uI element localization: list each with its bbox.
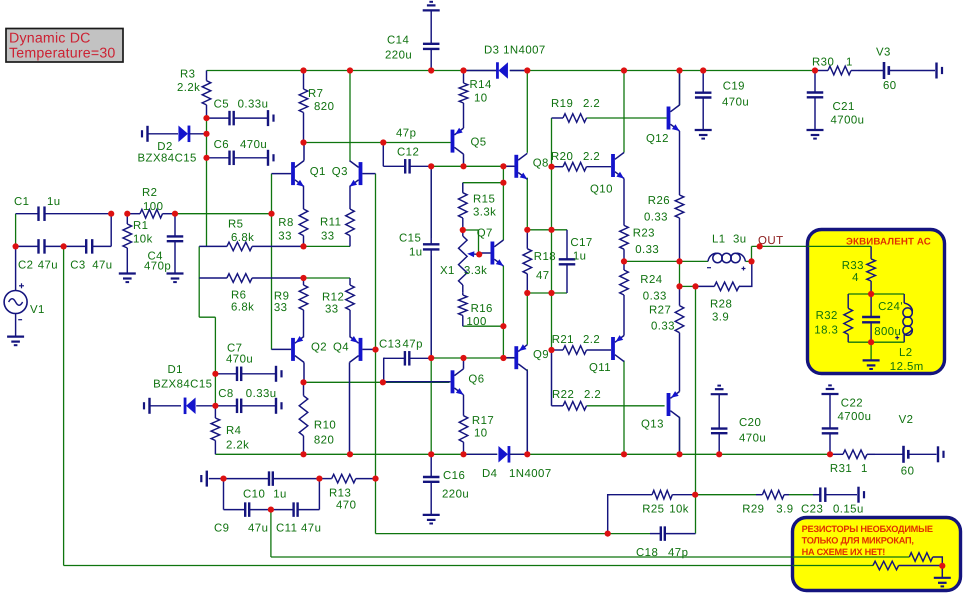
svg-text:X1: X1 (440, 265, 455, 277)
svg-text:0.33: 0.33 (643, 291, 667, 303)
wire (551, 118, 553, 350)
svg-text:R19: R19 (551, 98, 573, 110)
capacitor C14 (385, 10, 439, 70)
open end (268, 110, 274, 126)
svg-text:C13: C13 (379, 339, 401, 351)
wire (793, 556, 910, 558)
svg-text:D2: D2 (157, 141, 172, 153)
svg-text:C23: C23 (801, 504, 823, 516)
svg-text:D1: D1 (168, 364, 183, 376)
svg-text:R17: R17 (472, 415, 494, 427)
wire (695, 286, 697, 494)
transistor Q10 (590, 153, 624, 196)
transistor Q9 (503, 344, 549, 454)
svg-text:НА СХЕМЕ ИХ НЕТ!: НА СХЕМЕ ИХ НЕТ! (802, 547, 886, 557)
svg-text:L2: L2 (899, 347, 913, 359)
inductor L1 (707, 234, 747, 271)
wire (430, 256, 432, 359)
svg-text:47: 47 (536, 270, 550, 282)
resistor R11 (320, 187, 354, 247)
svg-text:R22: R22 (552, 389, 574, 401)
svg-text:C3: C3 (70, 260, 85, 272)
svg-text:R31: R31 (830, 463, 852, 475)
capacitor C9 (214, 479, 271, 535)
open end (201, 471, 207, 487)
svg-text:BZX84C15: BZX84C15 (138, 153, 197, 165)
potentiometer X1 (440, 230, 487, 292)
wire (848, 341, 904, 343)
ground (423, 515, 440, 524)
svg-text:470p: 470p (144, 261, 171, 273)
svg-text:R8: R8 (278, 217, 293, 229)
capacitor C6 (207, 139, 269, 165)
resistor R31 (830, 450, 875, 475)
transistor Q1 (272, 143, 326, 187)
ground (167, 274, 184, 283)
resistor R9 (274, 278, 308, 336)
svg-text:R29: R29 (742, 504, 764, 516)
capacitor C12 (383, 128, 429, 174)
svg-text:6.8k: 6.8k (231, 302, 254, 314)
wire (526, 71, 528, 153)
svg-text:Q4: Q4 (333, 342, 349, 354)
svg-text:2.2: 2.2 (583, 98, 600, 110)
wire (207, 70, 498, 72)
resistor R27 (649, 286, 684, 391)
svg-text:47u: 47u (248, 523, 268, 535)
wire (510, 453, 830, 455)
resistor R2 (127, 187, 175, 218)
capacitor C19 (695, 71, 749, 131)
wire (304, 142, 453, 144)
svg-text:2.2k: 2.2k (177, 82, 200, 94)
wire (304, 277, 351, 279)
svg-text:820: 820 (314, 435, 334, 447)
ground (822, 385, 839, 394)
svg-text:R24: R24 (640, 274, 662, 286)
wire (304, 381, 450, 383)
svg-text:R18: R18 (534, 251, 556, 263)
svg-text:R14: R14 (470, 79, 492, 91)
svg-text:V1: V1 (30, 304, 45, 316)
wire (463, 183, 504, 193)
svg-text:R32: R32 (816, 310, 838, 322)
transistor Q11 (589, 335, 624, 374)
wire (175, 213, 272, 215)
svg-text:10: 10 (474, 93, 488, 105)
wire (808, 245, 872, 247)
svg-text:R5: R5 (228, 219, 243, 231)
svg-text:C9: C9 (214, 523, 229, 535)
svg-text:33: 33 (274, 302, 288, 314)
open end (144, 398, 150, 414)
resistor R18 (523, 230, 556, 293)
ground (807, 130, 824, 139)
resistor R14 (459, 71, 492, 129)
ground (934, 578, 951, 587)
capacitor C1 (14, 196, 111, 221)
diode D4 1N4007 (464, 446, 552, 480)
svg-text:R15: R15 (473, 194, 495, 206)
svg-text:C11: C11 (276, 523, 297, 535)
capacitor C10 (209, 471, 320, 500)
svg-text:C22: C22 (841, 398, 863, 410)
svg-text:R12: R12 (322, 292, 344, 304)
wire (680, 285, 696, 287)
open end (142, 126, 148, 142)
svg-text:100: 100 (143, 201, 163, 213)
svg-text:V3: V3 (876, 47, 891, 59)
svg-text:D3 1N4007: D3 1N4007 (484, 45, 546, 57)
svg-text:1: 1 (861, 463, 868, 475)
svg-text:C21: C21 (833, 101, 855, 113)
svg-text:R21: R21 (552, 334, 574, 346)
resistor R30 (812, 57, 858, 75)
wire (870, 342, 872, 360)
wire (502, 166, 504, 240)
transistor Q3 (332, 161, 376, 187)
capacitor C4 (144, 214, 183, 274)
wire (431, 357, 516, 359)
inductor L2 (890, 294, 924, 373)
svg-text:0.33u: 0.33u (246, 388, 277, 400)
svg-text:18.3: 18.3 (814, 325, 838, 337)
svg-text:R11: R11 (320, 217, 341, 229)
svg-text:Temperature=30: Temperature=30 (9, 46, 116, 62)
wire (679, 71, 681, 106)
capacitor C11 (271, 479, 321, 535)
svg-text:C20: C20 (739, 417, 761, 429)
resistor R13 (319, 474, 375, 511)
svg-text:R25: R25 (642, 504, 664, 516)
svg-text:C14: C14 (387, 35, 409, 47)
resistor R21 (552, 334, 612, 354)
capacitor C21 (807, 71, 865, 131)
wire (214, 374, 216, 406)
wire (752, 245, 872, 247)
svg-text:470u: 470u (722, 97, 749, 109)
svg-text:2.2: 2.2 (584, 389, 601, 401)
battery V3 (858, 47, 935, 93)
resistor R34 (909, 553, 942, 566)
diode D3 1N4007 (464, 45, 546, 79)
wire (526, 293, 528, 345)
svg-text:4700u: 4700u (838, 411, 872, 423)
svg-text:C8: C8 (218, 388, 233, 400)
resistor R1 (123, 214, 153, 274)
svg-text:R23: R23 (633, 228, 655, 240)
svg-text:3.3k: 3.3k (464, 265, 487, 277)
capacitor C7 (215, 343, 276, 382)
svg-text:1u: 1u (409, 247, 423, 259)
wire (375, 174, 377, 479)
wire (679, 261, 681, 286)
svg-text:R30: R30 (812, 57, 834, 69)
svg-text:0.33u: 0.33u (238, 99, 269, 111)
open end (938, 446, 944, 462)
wire (624, 260, 708, 262)
resistor R5 (199, 219, 303, 251)
resistor R12 (322, 278, 354, 336)
capacitor C8 (215, 388, 276, 413)
wire (793, 565, 874, 567)
svg-text:C15: C15 (399, 233, 421, 245)
wire (526, 369, 528, 454)
svg-text:10k: 10k (669, 504, 689, 516)
open end (937, 63, 943, 79)
svg-text:Q10: Q10 (590, 184, 613, 196)
resistor R16 (459, 292, 493, 328)
resistor R10 (299, 382, 336, 454)
svg-text:10: 10 (474, 428, 488, 440)
wire (64, 565, 873, 567)
svg-text:R9: R9 (274, 291, 289, 303)
svg-text:Q2: Q2 (311, 342, 327, 354)
diode D1 BZX84C15 (150, 364, 216, 414)
wire (199, 246, 215, 373)
svg-text:33: 33 (321, 231, 335, 243)
wire (527, 229, 567, 231)
resistor R35 (873, 561, 942, 570)
svg-text:Q13: Q13 (641, 419, 664, 431)
resistor R20 (551, 151, 611, 171)
svg-text:220u: 220u (442, 489, 469, 501)
svg-text:C12: C12 (397, 147, 419, 159)
ground (711, 386, 728, 395)
transistor Q8 (503, 153, 548, 179)
svg-text:47u: 47u (38, 260, 58, 272)
node OUT (758, 235, 784, 247)
svg-text:47p: 47p (396, 128, 416, 140)
wire (15, 214, 17, 247)
svg-text:0.33: 0.33 (644, 212, 668, 224)
resistor R15 (459, 183, 497, 230)
svg-text:47u: 47u (92, 260, 112, 272)
wire (510, 70, 815, 72)
transistor Q6 (383, 358, 485, 395)
wire (623, 71, 625, 153)
svg-text:Dynamic DC: Dynamic DC (9, 31, 91, 47)
svg-text:100: 100 (466, 316, 486, 328)
svg-text:220u: 220u (385, 50, 412, 62)
resistor R22 (552, 350, 665, 410)
resistor R4 (211, 406, 249, 455)
transistor Q5 (451, 128, 487, 167)
capacitor C16 (423, 454, 469, 515)
resistor R29 (742, 490, 793, 515)
wire (349, 71, 351, 161)
svg-text:1u: 1u (573, 251, 587, 263)
svg-text:C16: C16 (443, 470, 465, 482)
open end (276, 398, 282, 414)
svg-text:Q8: Q8 (533, 158, 549, 170)
svg-text:R2: R2 (142, 187, 157, 199)
wire (502, 266, 504, 358)
svg-text:Q9: Q9 (533, 349, 549, 361)
svg-text:0.33: 0.33 (635, 244, 659, 256)
svg-text:3.3k: 3.3k (473, 207, 496, 219)
resistor R23 (620, 179, 659, 262)
wire (695, 494, 756, 496)
svg-text:R26: R26 (648, 195, 670, 207)
resistor R7 (299, 71, 334, 143)
svg-text:60: 60 (883, 80, 897, 92)
svg-text:ТОЛЬКО ДЛЯ МИКРОКАП,: ТОЛЬКО ДЛЯ МИКРОКАП, (802, 536, 914, 546)
svg-text:R20: R20 (551, 151, 573, 163)
svg-text:470u: 470u (240, 139, 267, 151)
wire (623, 361, 625, 455)
capacitor C18 (636, 526, 696, 559)
open end (276, 366, 282, 382)
battery V2 (875, 414, 937, 478)
wire (526, 178, 528, 230)
capacitor C24 (862, 294, 903, 342)
svg-text:Q1: Q1 (310, 166, 326, 178)
svg-text:Q7: Q7 (477, 228, 493, 240)
svg-text:V2: V2 (899, 414, 914, 426)
svg-text:3u: 3u (733, 234, 747, 246)
capacitor C22 (822, 394, 872, 454)
svg-text:6.8k: 6.8k (231, 232, 254, 244)
resistor R25 (608, 490, 696, 533)
svg-text:R3: R3 (180, 69, 195, 81)
svg-text:1: 1 (846, 57, 853, 69)
wire (270, 510, 272, 557)
capacitor C5 (207, 99, 269, 126)
svg-text:2.2k: 2.2k (226, 440, 249, 452)
svg-text:1u: 1u (47, 196, 61, 208)
wire (463, 325, 503, 327)
svg-text:470u: 470u (739, 433, 766, 445)
svg-text:R1: R1 (133, 220, 148, 232)
transistor Q2 (272, 336, 328, 382)
resistor R26 (644, 131, 684, 261)
svg-text:R4: R4 (226, 425, 241, 437)
wire (430, 358, 432, 454)
svg-text:1u: 1u (273, 489, 287, 501)
wire (679, 417, 681, 455)
svg-text:12.5m: 12.5m (890, 361, 924, 373)
svg-text:C1: C1 (14, 196, 29, 208)
svg-text:2.2: 2.2 (583, 151, 600, 163)
capacitor C15 (399, 166, 439, 358)
svg-text:D4: D4 (482, 468, 497, 480)
svg-text:R16: R16 (471, 303, 493, 315)
capacitor C23 (801, 487, 864, 515)
svg-text:Q6: Q6 (468, 374, 484, 386)
svg-text:10k: 10k (133, 234, 153, 246)
svg-text:Q12: Q12 (646, 133, 669, 145)
svg-text:BZX84C15: BZX84C15 (153, 379, 212, 391)
resistor R28 (696, 261, 752, 323)
svg-text:4: 4 (852, 272, 859, 284)
svg-text:R10: R10 (314, 420, 336, 432)
svg-text:60: 60 (901, 466, 915, 478)
svg-text:R33: R33 (842, 260, 864, 272)
transistor Q12 (646, 71, 680, 146)
ground (423, 2, 440, 11)
resistor R17 (459, 395, 494, 455)
svg-text:1N4007: 1N4007 (509, 468, 552, 480)
box microcap note (793, 518, 961, 591)
svg-text:0.15u: 0.15u (833, 504, 864, 516)
svg-text:R7: R7 (308, 88, 323, 100)
wire (63, 246, 65, 565)
wire (463, 230, 479, 254)
transistor Q13 (641, 391, 680, 454)
capacitor C2 (16, 239, 64, 271)
svg-text:C19: C19 (723, 81, 745, 93)
resistor R3 (177, 69, 211, 119)
diode D2 BZX84C15 (138, 126, 207, 165)
svg-text:820: 820 (314, 101, 334, 113)
capacitor C20 (711, 394, 766, 454)
svg-text:C2: C2 (18, 260, 33, 272)
svg-text:470u: 470u (226, 354, 253, 366)
wire (941, 566, 943, 578)
open end (859, 487, 865, 503)
resistor R19 (551, 98, 667, 122)
svg-text:C17: C17 (570, 237, 592, 249)
wire (695, 495, 697, 534)
svg-text:4700u: 4700u (831, 115, 865, 127)
resistor R32 (814, 294, 852, 342)
svg-text:470: 470 (336, 500, 356, 512)
wire (271, 556, 909, 558)
svg-text:C6: C6 (214, 139, 229, 151)
wire (848, 293, 904, 295)
svg-text:R27: R27 (649, 305, 671, 317)
svg-text:33: 33 (325, 304, 339, 316)
svg-text:Q3: Q3 (332, 166, 348, 178)
svg-text:47p: 47p (668, 547, 688, 559)
wire (376, 533, 651, 535)
wire (789, 494, 813, 496)
svg-text:РЕЗИСТОРЫ НЕОБХОДИМЫЕ: РЕЗИСТОРЫ НЕОБХОДИМЫЕ (802, 524, 933, 534)
resistor R6 (199, 274, 303, 314)
wire (527, 292, 567, 294)
svg-text:Q5: Q5 (471, 137, 487, 149)
svg-text:L1: L1 (712, 234, 726, 246)
capacitor C3 (64, 214, 113, 272)
wire (271, 174, 273, 350)
svg-text:0.33: 0.33 (651, 321, 675, 333)
svg-text:C10: C10 (243, 489, 265, 501)
resistor R24 (620, 261, 667, 335)
title box Dynamic DC (6, 29, 123, 63)
wire (745, 246, 751, 261)
ground (863, 360, 880, 369)
svg-text:3.9: 3.9 (776, 504, 793, 516)
wire (429, 165, 516, 167)
capacitor C13 (379, 339, 431, 383)
svg-text:2.2: 2.2 (583, 334, 600, 346)
svg-text:R6: R6 (231, 290, 246, 302)
wire (215, 453, 497, 455)
transistor Q4 (333, 336, 376, 454)
transistor Q7 (477, 228, 504, 267)
wire (870, 246, 872, 259)
svg-text:33: 33 (278, 231, 292, 243)
wire (430, 166, 432, 238)
open end (268, 150, 274, 166)
capacitor C17 (559, 230, 593, 293)
ground (7, 337, 24, 346)
source V1 (4, 246, 45, 336)
svg-text:R13: R13 (329, 488, 351, 500)
wire (206, 118, 208, 246)
resistor R8 (278, 187, 308, 247)
